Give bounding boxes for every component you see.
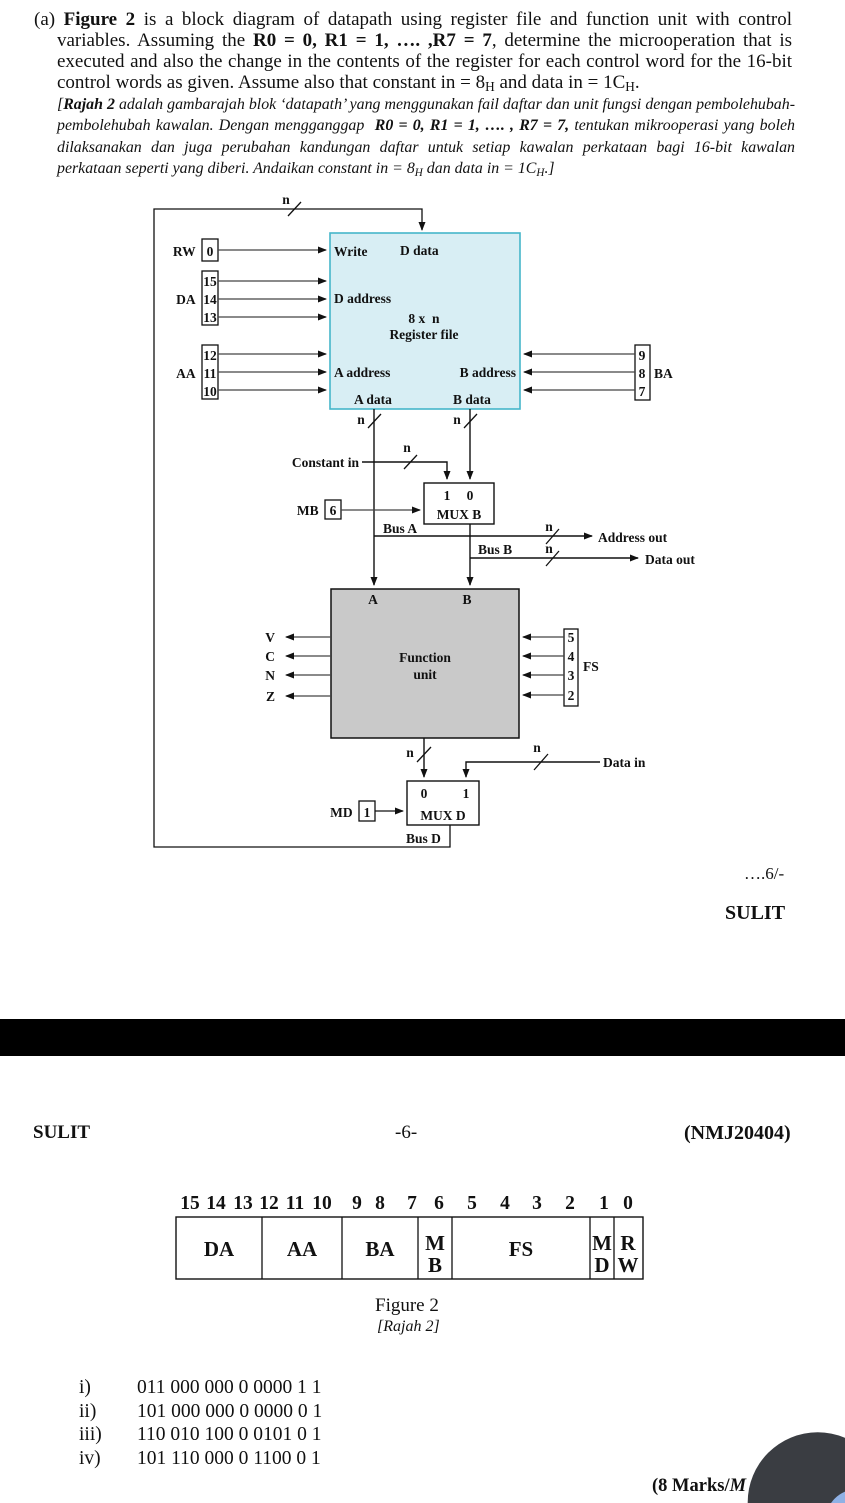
svg-text:unit: unit: [413, 667, 437, 682]
svg-text:1: 1: [463, 786, 470, 801]
svg-text:Bus A: Bus A: [383, 521, 417, 536]
svg-text:n: n: [545, 541, 553, 556]
svg-text:0: 0: [207, 244, 214, 259]
svg-text:Z: Z: [266, 689, 275, 704]
svg-text:1: 1: [444, 488, 451, 503]
svg-text:8: 8: [375, 1193, 385, 1214]
svg-text:DA: DA: [204, 1237, 235, 1261]
svg-text:A address: A address: [334, 365, 390, 380]
svg-text:M: M: [425, 1231, 445, 1255]
svg-text:Bus B: Bus B: [478, 542, 512, 557]
svg-text:15: 15: [203, 274, 217, 289]
svg-text:n: n: [453, 412, 461, 427]
svg-text:Write: Write: [334, 244, 368, 259]
svg-text:10: 10: [203, 384, 217, 399]
svg-text:n: n: [357, 412, 365, 427]
svg-text:Register file: Register file: [389, 327, 458, 342]
svg-text:R: R: [620, 1231, 636, 1255]
svg-text:MUX B: MUX B: [437, 507, 482, 522]
svg-text:A data: A data: [354, 392, 392, 407]
svg-text:12: 12: [259, 1193, 279, 1214]
svg-text:12: 12: [203, 348, 217, 363]
svg-text:0: 0: [421, 786, 428, 801]
svg-text:11: 11: [204, 366, 217, 381]
svg-text:N: N: [265, 668, 275, 683]
svg-text:AA: AA: [287, 1237, 318, 1261]
svg-text:Address out: Address out: [598, 530, 668, 545]
svg-text:2: 2: [565, 1193, 575, 1214]
svg-text:Constant in: Constant in: [292, 455, 360, 470]
svg-text:0: 0: [623, 1193, 633, 1214]
svg-text:7: 7: [639, 384, 646, 399]
svg-text:B: B: [462, 592, 471, 607]
svg-text:n: n: [406, 745, 414, 760]
svg-text:13: 13: [203, 310, 217, 325]
svg-text:14: 14: [206, 1193, 226, 1214]
svg-text:Bus D: Bus D: [406, 831, 441, 846]
svg-text:5: 5: [568, 630, 575, 645]
svg-text:n: n: [403, 440, 411, 455]
svg-text:8 x n: 8 x n: [408, 311, 440, 326]
svg-text:n: n: [282, 192, 290, 207]
svg-text:MUX D: MUX D: [420, 808, 466, 823]
svg-text:RW: RW: [173, 244, 199, 259]
svg-text:BA: BA: [654, 366, 673, 381]
svg-text:1: 1: [599, 1193, 609, 1214]
svg-text:9: 9: [639, 348, 646, 363]
svg-text:3: 3: [532, 1193, 542, 1214]
svg-text:B address: B address: [460, 365, 516, 380]
svg-text:DA: DA: [176, 292, 199, 307]
svg-text:V: V: [265, 630, 275, 645]
svg-text:0: 0: [467, 488, 474, 503]
svg-text:1: 1: [364, 805, 371, 820]
svg-text:B data: B data: [453, 392, 491, 407]
svg-text:D data: D data: [400, 243, 439, 258]
svg-text:8: 8: [639, 366, 646, 381]
svg-text:FS: FS: [583, 659, 599, 674]
svg-text:AA: AA: [176, 366, 199, 381]
svg-text:7: 7: [407, 1193, 417, 1214]
svg-text:n: n: [533, 740, 541, 755]
svg-text:Data in: Data in: [603, 755, 646, 770]
svg-text:4: 4: [568, 649, 575, 664]
svg-text:MD: MD: [330, 805, 356, 820]
svg-text:BA: BA: [365, 1237, 395, 1261]
svg-text:6: 6: [434, 1193, 444, 1214]
svg-text:10: 10: [312, 1193, 332, 1214]
svg-text:Function: Function: [399, 650, 451, 665]
svg-text:M: M: [592, 1231, 612, 1255]
svg-text:2: 2: [568, 688, 575, 703]
svg-text:14: 14: [203, 292, 217, 307]
svg-text:B: B: [428, 1253, 442, 1277]
svg-text:D address: D address: [334, 291, 391, 306]
svg-text:n: n: [545, 519, 553, 534]
svg-text:9: 9: [352, 1193, 362, 1214]
svg-text:C: C: [265, 649, 275, 664]
svg-text:FS: FS: [509, 1237, 534, 1261]
svg-text:5: 5: [467, 1193, 477, 1214]
svg-text:6: 6: [330, 503, 337, 518]
svg-text:13: 13: [233, 1193, 253, 1214]
svg-text:W: W: [618, 1253, 639, 1277]
svg-text:4: 4: [500, 1193, 510, 1214]
svg-text:MB: MB: [297, 503, 322, 518]
svg-text:11: 11: [286, 1193, 304, 1214]
svg-text:3: 3: [568, 668, 575, 683]
svg-text:15: 15: [180, 1193, 200, 1214]
svg-text:Data out: Data out: [645, 552, 695, 567]
svg-text:A: A: [368, 592, 378, 607]
svg-text:D: D: [594, 1253, 609, 1277]
